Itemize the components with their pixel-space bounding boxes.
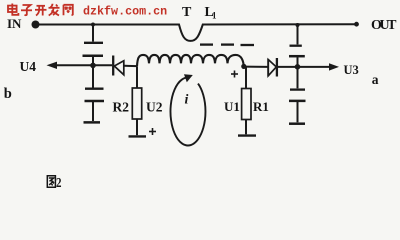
svg-text:R1: R1 bbox=[253, 99, 269, 114]
svg-text:T: T bbox=[182, 5, 192, 20]
svg-text:a: a bbox=[372, 72, 379, 87]
svg-text:R2: R2 bbox=[113, 100, 130, 115]
svg-text:b: b bbox=[4, 86, 12, 102]
svg-text:2: 2 bbox=[56, 176, 62, 191]
svg-text:U3: U3 bbox=[344, 63, 359, 77]
svg-text:i: i bbox=[185, 93, 189, 108]
svg-text:IN: IN bbox=[7, 16, 22, 31]
svg-text:1: 1 bbox=[212, 11, 217, 21]
svg-text:dzkfw.com.cn: dzkfw.com.cn bbox=[83, 5, 167, 19]
svg-text:U4: U4 bbox=[20, 59, 37, 74]
svg-text:OUT: OUT bbox=[371, 18, 397, 33]
svg-text:U2: U2 bbox=[146, 100, 163, 115]
svg-text:U1: U1 bbox=[224, 99, 240, 114]
